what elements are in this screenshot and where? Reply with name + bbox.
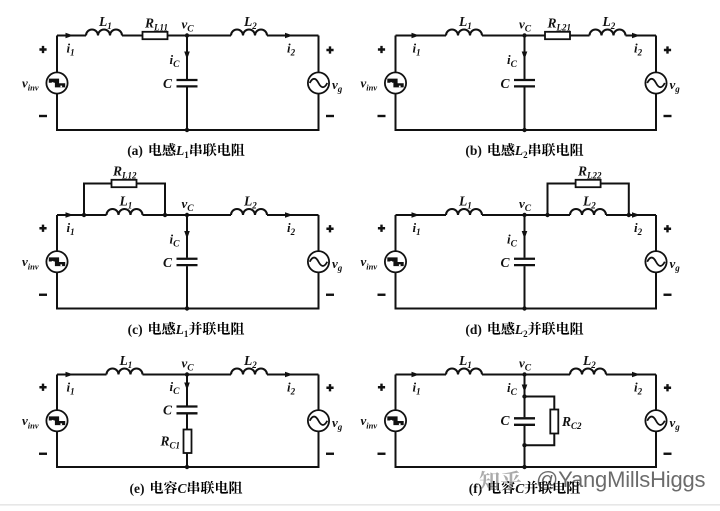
junction bottom (f) — [522, 465, 526, 469]
svg-text:C: C — [163, 403, 173, 418]
minus sign left (e) — [39, 453, 47, 455]
minus sign right (b) — [664, 115, 672, 117]
plus sign left (a) — [39, 46, 46, 53]
capacitor C (b) — [514, 80, 535, 86]
minus sign right (d) — [664, 294, 672, 296]
capacitor C (f) — [514, 418, 535, 425]
junction bottom (a) — [185, 128, 189, 132]
wire top-left (f) — [396, 374, 447, 376]
resistor RL12 (c) — [112, 180, 137, 187]
wire right upper (a) — [318, 36, 320, 73]
current arrow i1 (f) — [412, 372, 420, 378]
junction top of parallel branch (f) — [522, 394, 526, 398]
svg-text:(c): (c) — [128, 322, 143, 337]
plus sign right (f) — [664, 384, 671, 391]
plus sign left (e) — [39, 384, 46, 391]
voltage source v_inv (b) — [385, 72, 406, 93]
wire capacitor to bottom (d) — [524, 266, 526, 308]
inductor L1 (e) — [107, 369, 143, 375]
junction bottom (e) — [185, 465, 189, 469]
wire capacitor to bottom (a) — [186, 87, 188, 130]
svg-text:C: C — [178, 481, 188, 496]
wire left upper (b) — [395, 36, 397, 73]
voltage source v_g (c) — [308, 251, 329, 272]
current arrow i1 (c) — [66, 212, 74, 218]
wire capacitor to bottom (f) — [524, 426, 526, 467]
current arrow i2 (c) — [285, 212, 293, 218]
junction right stub (d) — [627, 213, 631, 217]
current arrow i1 (b) — [412, 33, 420, 39]
current arrow i1 (d) — [412, 212, 420, 218]
wire top-right (c) — [267, 214, 319, 216]
wire top-right (b) — [626, 35, 657, 37]
voltage source v_inv (e) — [46, 410, 67, 431]
wire top-right (f) — [606, 374, 656, 376]
capacitor C (a) — [177, 80, 198, 86]
node v_C (a) — [185, 33, 189, 37]
wire right upper (d) — [655, 215, 657, 251]
plus sign right (c) — [326, 225, 333, 232]
minus sign left (a) — [39, 115, 47, 117]
junction bottom (c) — [185, 306, 189, 310]
inductor L1 (a) — [86, 30, 122, 36]
svg-text:(b): (b) — [465, 143, 482, 158]
wire top-left (e) — [57, 374, 107, 376]
wire node to capacitor (a) — [186, 36, 188, 80]
wire parallel resistor branch (f) — [525, 397, 555, 446]
resistor RL21 (b) — [545, 32, 570, 39]
svg-text:(e): (e) — [130, 481, 145, 496]
svg-text:C: C — [163, 76, 173, 91]
plus sign left (b) — [378, 46, 385, 53]
inductor L2 (b) — [590, 30, 626, 36]
voltage source v_inv (a) — [46, 72, 67, 93]
wire top-left (a) — [57, 35, 86, 37]
watermark Zhihu @YangMillsHiggs — [480, 467, 706, 492]
plus sign right (d) — [664, 225, 671, 232]
wire left upper (a) — [56, 36, 58, 73]
voltage source v_g (b) — [645, 72, 666, 93]
junction right stub (c) — [163, 213, 167, 217]
wire left lower + bottom left (b) — [396, 94, 525, 130]
caption (e) — [130, 481, 243, 496]
wire top-middle (a) — [122, 35, 231, 37]
wire parallel branch over L2 (d) — [548, 184, 629, 216]
bottom divider line — [0, 504, 720, 506]
wire capacitor to bottom (e) — [186, 414, 188, 467]
wire parallel branch over L1 (c) — [84, 184, 165, 216]
wire capacitor to bottom (c) — [186, 266, 188, 308]
caption (d) — [465, 322, 583, 339]
current arrow iC (e) — [184, 383, 190, 391]
wire right lower + bottom right (c) — [187, 272, 319, 308]
minus sign right (a) — [326, 115, 334, 117]
inductor L2 (c) — [231, 209, 267, 215]
plus sign right (e) — [326, 384, 333, 391]
plus sign left (c) — [39, 225, 46, 232]
caption (c) — [128, 322, 245, 339]
voltage source v_inv (c) — [46, 251, 67, 272]
wire left lower + bottom left (d) — [396, 272, 525, 308]
svg-text:C: C — [515, 481, 525, 496]
wire top-right (e) — [267, 374, 319, 376]
wire left upper (f) — [395, 375, 397, 411]
wire capacitor to bottom (b) — [524, 87, 526, 130]
capacitor C (d) — [514, 259, 535, 265]
node v_C (b) — [522, 33, 526, 37]
minus sign right (f) — [664, 453, 672, 455]
current arrow i1 (e) — [66, 372, 74, 378]
wire right upper (b) — [655, 36, 657, 73]
capacitor C (e) — [177, 407, 198, 414]
wire left lower + bottom left (c) — [57, 272, 187, 308]
current arrow i1 (a) — [66, 33, 74, 39]
inductor L2 (a) — [231, 30, 267, 36]
plus sign right (a) — [326, 46, 333, 53]
wire top-left (b) — [396, 35, 447, 37]
wire left lower + bottom left (a) — [57, 94, 187, 130]
wire top-left (d) — [396, 214, 447, 216]
current arrow iC (b) — [522, 52, 528, 60]
junction bottom (d) — [522, 306, 526, 310]
current arrow i2 (f) — [632, 372, 640, 378]
wire node to capacitor (c) — [186, 215, 188, 258]
wire top-middle (e) — [143, 374, 232, 376]
inductor L1 (c) — [107, 209, 143, 215]
current arrow i2 (b) — [632, 33, 640, 39]
wire top-middle (b) — [482, 35, 590, 37]
plus sign right (b) — [664, 46, 671, 53]
wire top-middle (d) — [482, 214, 570, 216]
wire right lower + bottom right (f) — [525, 431, 657, 467]
svg-text:(a): (a) — [127, 143, 143, 158]
wire right lower + bottom right (e) — [187, 431, 319, 467]
caption (f) — [469, 481, 580, 496]
node v_C (d) — [522, 213, 526, 217]
current arrow i2 (d) — [632, 212, 640, 218]
junction bottom of parallel branch (f) — [522, 443, 526, 447]
wire left upper (c) — [56, 215, 58, 251]
wire top-middle (c) — [143, 214, 232, 216]
wire node to capacitor (f) — [524, 375, 526, 418]
svg-text:(f): (f) — [469, 481, 483, 496]
node v_C (e) — [185, 372, 189, 376]
wire left lower + bottom left (e) — [57, 431, 187, 467]
node v_C (f) — [522, 372, 526, 376]
minus sign left (b) — [378, 115, 386, 117]
minus sign left (c) — [39, 294, 47, 296]
wire left upper (e) — [56, 375, 58, 411]
inductor L2 (e) — [231, 369, 267, 375]
voltage source v_g (d) — [645, 251, 666, 272]
inductor L1 (d) — [446, 209, 482, 215]
wire right lower + bottom right (b) — [525, 94, 657, 130]
minus sign right (c) — [326, 294, 334, 296]
inductor L2 (d) — [570, 209, 606, 215]
current arrow iC (f) — [522, 385, 528, 393]
plus sign left (d) — [378, 225, 385, 232]
wire node to capacitor (d) — [524, 215, 526, 258]
voltage source v_inv (f) — [385, 410, 406, 431]
svg-text:C: C — [501, 255, 511, 270]
voltage source v_g (e) — [308, 410, 329, 431]
svg-text:C: C — [501, 76, 511, 91]
wire node to capacitor (b) — [524, 36, 526, 80]
wire top-left (c) — [57, 214, 107, 216]
current arrow iC (d) — [522, 231, 528, 239]
caption (b) — [465, 143, 583, 160]
svg-text:C: C — [501, 413, 511, 428]
wire top-middle (f) — [482, 374, 570, 376]
wire top-right (a) — [267, 35, 319, 37]
node v_C (c) — [185, 213, 189, 217]
svg-text:@YangMillsHiggs: @YangMillsHiggs — [536, 467, 706, 492]
inductor L2 (f) — [570, 369, 606, 375]
resistor RC2 (f) — [550, 410, 558, 434]
minus sign left (d) — [378, 294, 386, 296]
resistor RL22 (d) — [576, 180, 601, 187]
junction left stub (c) — [82, 213, 86, 217]
inductor L1 (b) — [446, 30, 482, 36]
wire right upper (e) — [318, 375, 320, 411]
caption (a) — [127, 143, 244, 160]
wire node to capacitor (e) — [186, 375, 188, 406]
resistor RC1 (e) — [184, 430, 192, 454]
minus sign left (f) — [378, 453, 386, 455]
resistor RL11 (a) — [143, 32, 168, 39]
wire right upper (f) — [655, 375, 657, 411]
junction bottom (b) — [522, 128, 526, 132]
current arrow iC (c) — [184, 231, 190, 239]
voltage source v_g (f) — [645, 410, 666, 431]
junction left stub (d) — [545, 213, 549, 217]
minus sign right (e) — [326, 453, 334, 455]
voltage source v_inv (d) — [385, 251, 406, 272]
svg-text:C: C — [163, 255, 173, 270]
current arrow i2 (e) — [285, 372, 293, 378]
svg-text:(d): (d) — [465, 322, 482, 337]
wire left lower + bottom left (f) — [396, 431, 525, 467]
wire left upper (d) — [395, 215, 397, 251]
capacitor C (c) — [177, 259, 198, 265]
plus sign left (f) — [378, 384, 385, 391]
inductor L1 (f) — [446, 369, 482, 375]
wire right lower + bottom right (a) — [187, 94, 319, 130]
current arrow i2 (a) — [285, 33, 293, 39]
wire right upper (c) — [318, 215, 320, 251]
wire top-right (d) — [606, 214, 656, 216]
voltage source v_g (a) — [308, 72, 329, 93]
current arrow iC (a) — [184, 52, 190, 60]
wire right lower + bottom right (d) — [525, 272, 657, 308]
